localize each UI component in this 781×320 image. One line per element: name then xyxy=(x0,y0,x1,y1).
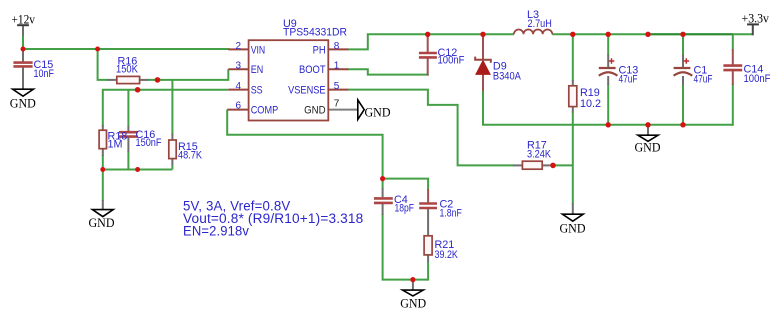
svg-text:VIN: VIN xyxy=(251,44,266,56)
svg-text:2.7uH: 2.7uH xyxy=(528,18,552,30)
svg-text:100nF: 100nF xyxy=(744,73,771,85)
svg-text:BOOT: BOOT xyxy=(299,64,326,76)
svg-text:GND: GND xyxy=(365,106,391,120)
svg-text:GND: GND xyxy=(560,222,586,236)
svg-text:10.2: 10.2 xyxy=(580,98,601,110)
svg-text:1: 1 xyxy=(334,61,340,72)
svg-text:150K: 150K xyxy=(116,64,139,76)
svg-text:GND: GND xyxy=(304,105,326,117)
svg-text:100nF: 100nF xyxy=(438,55,465,67)
svg-text:3: 3 xyxy=(236,61,242,72)
svg-text:GND: GND xyxy=(400,297,426,311)
svg-text:6: 6 xyxy=(236,101,242,112)
svg-text:TPS54331DR: TPS54331DR xyxy=(283,26,347,38)
svg-text:EN=2.918v: EN=2.918v xyxy=(183,223,249,238)
svg-text:8: 8 xyxy=(334,41,340,52)
svg-text:COMP: COMP xyxy=(251,105,279,117)
svg-text:PH: PH xyxy=(313,44,326,56)
svg-text:3.24K: 3.24K xyxy=(527,149,552,161)
svg-text:7: 7 xyxy=(334,99,340,110)
svg-text:GND: GND xyxy=(89,216,115,230)
svg-text:48.7K: 48.7K xyxy=(178,150,203,162)
svg-text:VSENSE: VSENSE xyxy=(288,85,326,97)
svg-text:SS: SS xyxy=(251,85,263,97)
svg-text:5: 5 xyxy=(334,81,340,92)
svg-text:18pF: 18pF xyxy=(395,203,415,215)
svg-text:GND: GND xyxy=(635,141,661,155)
svg-text:+12v: +12v xyxy=(12,13,36,27)
svg-text:EN: EN xyxy=(251,64,264,76)
svg-text:47uF: 47uF xyxy=(619,74,638,86)
svg-text:+3.3v: +3.3v xyxy=(742,12,770,26)
svg-text:1M: 1M xyxy=(108,139,123,151)
svg-text:2: 2 xyxy=(236,41,242,52)
svg-text:4: 4 xyxy=(236,81,242,92)
svg-text:GND: GND xyxy=(10,97,36,111)
svg-text:1.8nF: 1.8nF xyxy=(440,208,463,220)
svg-text:39.2K: 39.2K xyxy=(435,249,459,261)
svg-text:B340A: B340A xyxy=(493,71,522,83)
svg-text:10nF: 10nF xyxy=(34,68,55,80)
svg-text:47uF: 47uF xyxy=(694,74,713,86)
svg-text:150nF: 150nF xyxy=(136,137,162,149)
